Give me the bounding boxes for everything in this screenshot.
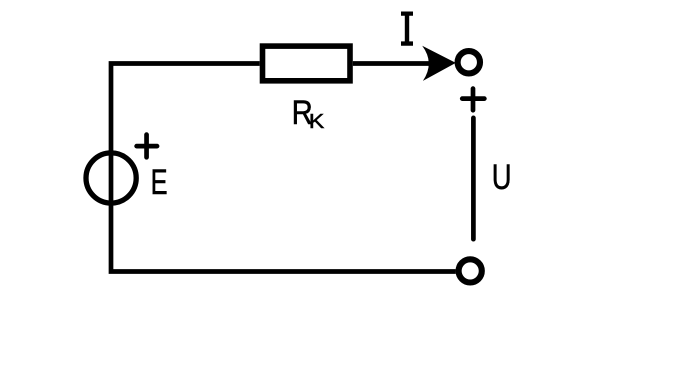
svg-text:K: K	[309, 109, 325, 132]
svg-text:E: E	[151, 163, 168, 202]
svg-text:U: U	[492, 158, 512, 197]
